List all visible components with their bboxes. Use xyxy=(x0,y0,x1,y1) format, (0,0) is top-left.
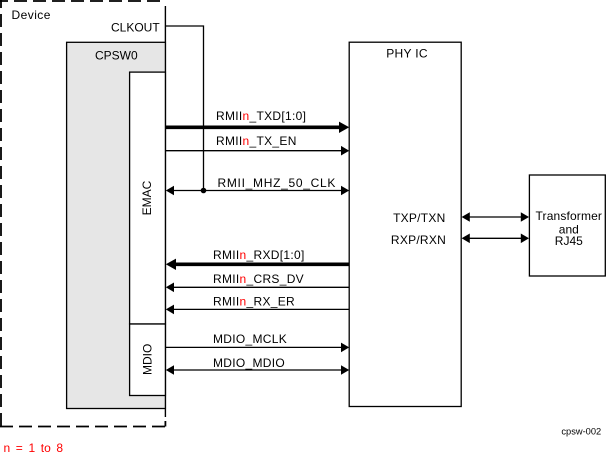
svg-text:RXP/RXN: RXP/RXN xyxy=(391,233,446,247)
signal RMIIn_RX_ER (from PHY) xyxy=(166,295,349,315)
junction dot on RMII_MHZ_50_CLK xyxy=(201,188,207,194)
signal RMIIn_TXD[1:0] (thick, to PHY) xyxy=(165,109,349,133)
svg-text:n = 1 to 8: n = 1 to 8 xyxy=(4,441,64,453)
svg-text:TXP/TXN: TXP/TXN xyxy=(393,211,445,225)
svg-text:RMIIn_TX_EN: RMIIn_TX_EN xyxy=(216,134,297,148)
svg-text:CPSW0: CPSW0 xyxy=(95,49,138,63)
svg-text:CLKOUT: CLKOUT xyxy=(111,21,160,35)
svg-text:PHY IC: PHY IC xyxy=(386,47,428,61)
svg-text:MDIO: MDIO xyxy=(140,344,154,375)
svg-text:RMIIn_RXD[1:0]: RMIIn_RXD[1:0] xyxy=(213,248,305,262)
block PHY IC xyxy=(349,42,461,406)
svg-text:MDIO_MDIO: MDIO_MDIO xyxy=(213,356,285,370)
svg-text:RMIIn_CRS_DV: RMIIn_CRS_DV xyxy=(213,272,304,286)
signal MDIO_MDIO (bidirectional) xyxy=(166,356,349,375)
svg-text:RMIIn_TXD[1:0]: RMIIn_TXD[1:0] xyxy=(216,109,306,123)
signal RMII_MHZ_50_CLK (both directions) xyxy=(166,176,349,195)
block CPSW0 (gray) xyxy=(67,42,166,408)
block MDIO xyxy=(130,324,166,396)
svg-text:Device: Device xyxy=(12,8,51,22)
signal RXP/RXN (bidirectional to transformer) xyxy=(391,233,529,247)
device dashed boundary xyxy=(0,0,165,427)
signal RMIIn_CRS_DV (from PHY) xyxy=(166,272,349,292)
svg-text:EMAC: EMAC xyxy=(140,180,154,215)
block Transformer and RJ45 xyxy=(529,175,605,276)
svg-text:RJ45: RJ45 xyxy=(555,234,583,248)
svg-text:RMIIn_RX_ER: RMIIn_RX_ER xyxy=(213,295,295,309)
signal TXP/TXN (bidirectional to transformer) xyxy=(393,211,529,225)
signal RMIIn_RXD[1:0] (thick, from PHY) xyxy=(166,248,349,270)
svg-text:RMII_MHZ_50_CLK: RMII_MHZ_50_CLK xyxy=(218,176,337,190)
signal RMIIn_TX_EN (to PHY) xyxy=(165,134,349,156)
svg-text:MDIO_MCLK: MDIO_MCLK xyxy=(213,332,287,346)
wire CLKOUT xyxy=(111,21,204,191)
svg-text:cpsw-002: cpsw-002 xyxy=(561,426,601,436)
svg-text:Transformer: Transformer xyxy=(536,209,603,223)
signal MDIO_MCLK (to PHY) xyxy=(165,332,349,352)
block EMAC xyxy=(130,72,166,324)
